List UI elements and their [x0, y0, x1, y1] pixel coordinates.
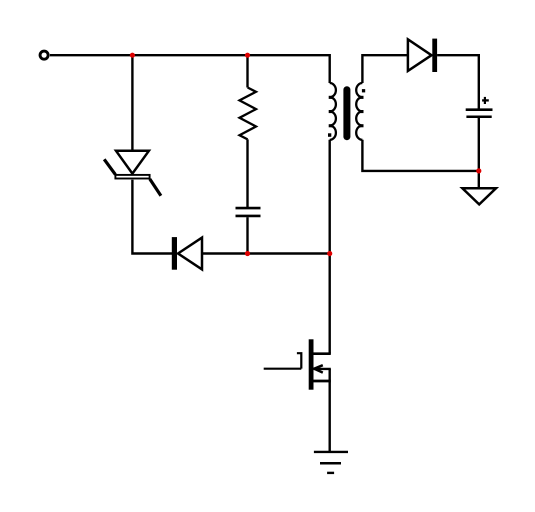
diode D2 cathode bar [172, 237, 177, 270]
diode D2 triangle [178, 238, 202, 270]
ground secondary [462, 188, 496, 204]
wire secondary top to diode D1 [362, 55, 408, 83]
wire node A to node B [132, 54, 247, 56]
node E junction dot [476, 168, 481, 173]
wire TVS to bottom-left corner [132, 180, 172, 254]
TVS diode D3 triangle [116, 151, 149, 174]
wire D2 to node C [202, 252, 248, 254]
resistor R1 top lead [246, 55, 248, 87]
wire node D to MOSFET drain [329, 254, 331, 354]
capacitor C1 top plate [236, 207, 261, 210]
capacitor C2 bottom plate [466, 115, 491, 118]
wire D1 to output cap [437, 55, 479, 109]
capacitor C2 top plate [466, 108, 493, 111]
transformer T1 secondary winding [356, 83, 362, 140]
ground primary bar 3 [327, 472, 334, 474]
node C junction dot [245, 251, 250, 256]
transformer secondary polarity dot [362, 89, 365, 92]
TVS bar upper-left hook [104, 159, 115, 174]
plus label [482, 99, 489, 101]
transformer T1 core [343, 90, 350, 137]
wire node E to ground [478, 171, 480, 188]
resistor R1 [240, 88, 257, 140]
wire source to ground [329, 369, 331, 452]
resistor R1 bottom lead [246, 139, 248, 207]
capacitor C1 bottom lead [246, 217, 248, 253]
wire node B to transformer primary top [248, 55, 330, 83]
ground primary bar 2 [320, 462, 341, 465]
wire secondary bottom [362, 140, 478, 171]
MOSFET Q1 source stub [313, 380, 331, 383]
TVS cathode bar [115, 175, 149, 179]
diode D1 triangle [408, 39, 432, 71]
wire terminal to node A [50, 54, 132, 56]
wire node C to node D [248, 252, 330, 254]
node B junction dot [245, 53, 250, 58]
wire node A down to TVS [131, 55, 133, 150]
capacitor C1 bottom plate [236, 215, 261, 218]
transformer T1 primary winding [330, 83, 336, 140]
capacitor C2 bottom lead [478, 118, 480, 171]
ground primary bar 1 [314, 451, 348, 453]
MOSFET Q1 channel bar [309, 339, 314, 389]
MOSFET Q1 gate electrode [297, 353, 301, 368]
transformer primary polarity dot [328, 133, 331, 137]
node A junction dot [130, 53, 135, 58]
wire primary winding to node D [329, 140, 331, 254]
input terminal [40, 51, 48, 59]
node D junction dot [327, 251, 332, 256]
MOSFET Q1 body arrow shaft [314, 368, 331, 370]
MOSFET Q1 gate lead [264, 368, 302, 370]
TVS bar lower-right hook [150, 179, 161, 196]
MOSFET Q1 body arrow head [314, 365, 323, 372]
diode D1 cathode bar [432, 39, 437, 72]
MOSFET Q1 drain stub [313, 352, 331, 355]
